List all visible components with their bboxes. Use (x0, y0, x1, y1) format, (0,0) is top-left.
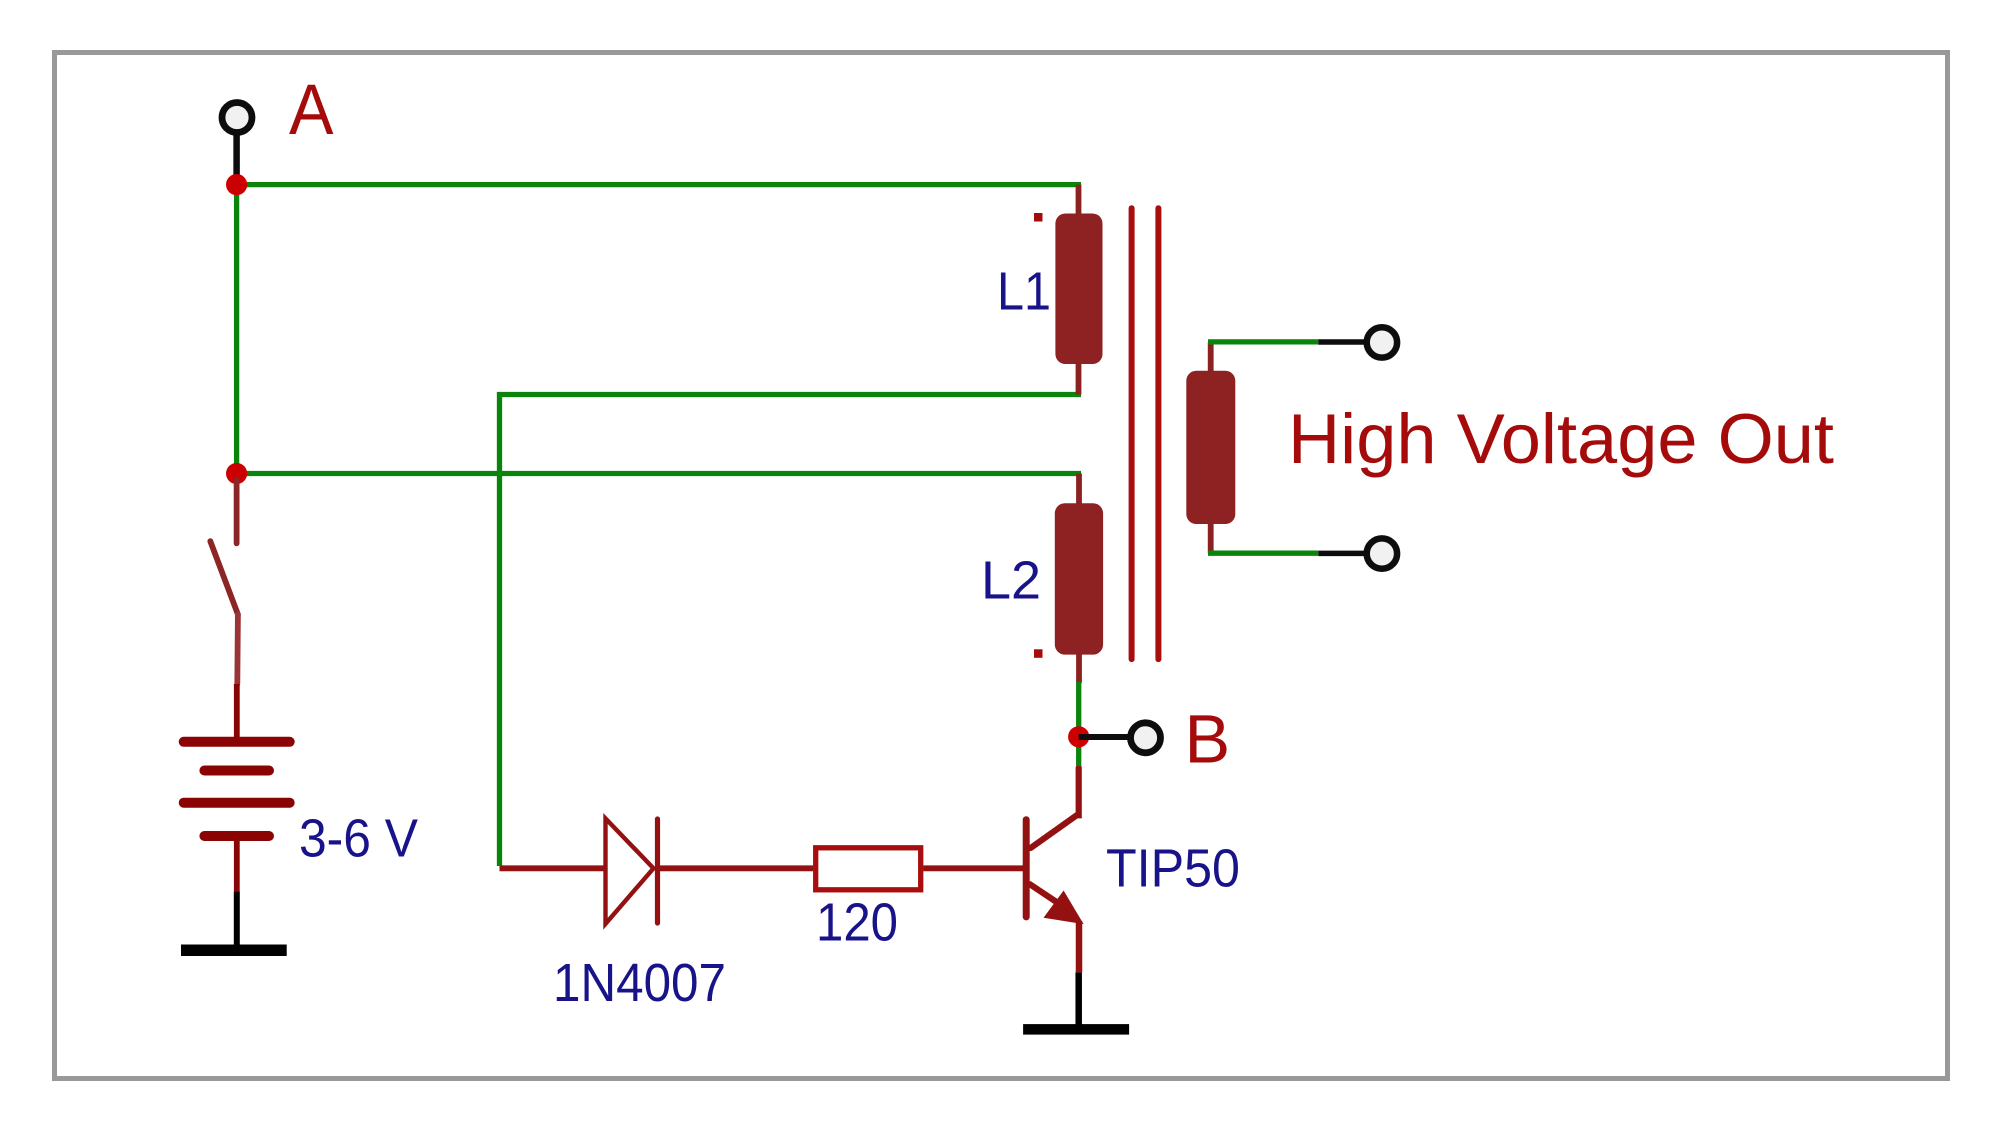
wire battery to switch (234, 684, 240, 740)
wire W1 node A top horizontal (237, 182, 1081, 187)
wire W2 node A vertical (234, 185, 239, 474)
wire resistor to base (923, 865, 1026, 871)
transistor Q1 emitter arrow (1044, 891, 1084, 925)
secondary winding L3 (1186, 371, 1235, 524)
inductor L1 bottom stub (1076, 362, 1082, 395)
inductor L2 top stub (1076, 474, 1082, 506)
secondary bottom wire green (1208, 551, 1318, 556)
transistor Q1 base bar (1023, 820, 1030, 917)
battery BT1 plate 1 (184, 737, 290, 747)
terminal out top (1367, 327, 1397, 357)
switch S1 blade (210, 541, 238, 614)
svg-text:TIP50: TIP50 (1106, 839, 1240, 899)
switch S1 top stub (234, 480, 240, 543)
wire W4 L1 bottom horizontal and feedback vertical (500, 395, 1082, 867)
svg-text:A: A (289, 71, 334, 150)
transformer core line 2 (1155, 208, 1161, 659)
wire W3 lower horizontal to L2 (237, 471, 1081, 476)
svg-text:1N4007: 1N4007 (553, 953, 726, 1013)
terminal B pin (1079, 734, 1131, 740)
svg-text:120: 120 (816, 892, 898, 952)
secondary bottom wire black (1318, 551, 1366, 557)
junction node A1 (226, 174, 247, 195)
inductor L2 bottom stub (1076, 653, 1082, 683)
secondary top wire black (1318, 339, 1366, 345)
inductor L2 (1055, 503, 1103, 654)
switch S1 bottom pin (234, 614, 240, 684)
ground transistor bar (1023, 1024, 1129, 1035)
terminal A (222, 103, 252, 133)
ground battery stem (234, 891, 240, 947)
ground battery bar (181, 945, 287, 957)
secondary bottom stub (1208, 523, 1214, 553)
ground transistor stem (1075, 972, 1082, 1026)
terminal B (1131, 723, 1161, 753)
battery BT1 plate 3 (184, 798, 290, 808)
svg-text:High Voltage Out: High Voltage Out (1288, 399, 1834, 478)
inductor L1 top stub (1076, 185, 1082, 215)
terminal A pin (233, 133, 240, 182)
wire L2 to node B green upper (1076, 682, 1081, 766)
transformer core line 1 (1129, 208, 1135, 659)
transistor Q1 collector diagonal (1031, 768, 1079, 848)
inductor L2 phase dot (1034, 649, 1043, 658)
wire diode to resistor (657, 865, 813, 871)
inductor L1 (1055, 214, 1102, 365)
inductor L1 phase dot (1034, 213, 1043, 222)
terminal out bottom (1367, 538, 1397, 568)
transistor Q1 emitter lead (1076, 921, 1083, 972)
junction node A2 (226, 463, 247, 484)
svg-text:3-6 V: 3-6 V (299, 809, 418, 869)
battery BT1 plate 4 (204, 831, 269, 841)
secondary top wire green (1208, 339, 1318, 344)
diode D1 (606, 819, 654, 924)
transistor Q1 emitter diagonal (1030, 884, 1058, 903)
junction node B (1068, 726, 1089, 747)
diode D1 cathode bar (655, 819, 660, 923)
wire base red left (500, 865, 607, 871)
battery BT1 plate 2 (204, 766, 269, 776)
battery bottom stub (234, 841, 240, 891)
secondary top stub (1208, 342, 1214, 372)
svg-text:L2: L2 (981, 550, 1041, 610)
svg-text:L1: L1 (997, 261, 1051, 321)
resistor R1 (816, 848, 921, 890)
svg-text:B: B (1185, 701, 1231, 778)
